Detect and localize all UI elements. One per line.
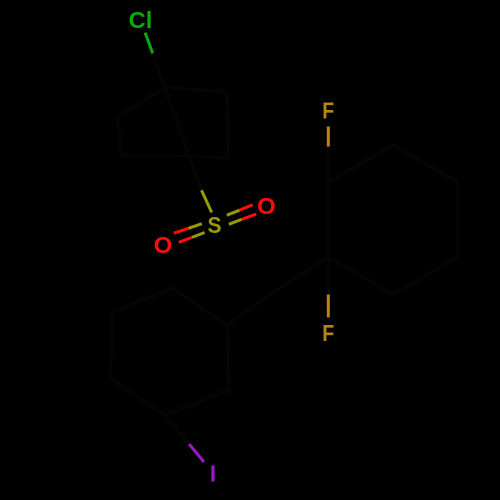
bond F2-C : carbon half (near-invisible): [327, 257, 330, 295]
bond Cl-C : carbon half (near-invisible): [153, 53, 165, 88]
bond S-C(aryl) : carbon half (near-invisible): [189, 156, 202, 191]
bond Cl-C : green half: [145, 33, 153, 54]
double bond S=O right (lower line) olive+red: [229, 219, 242, 224]
benzene ring 2 (difluorophenyl) near-invisible C-C edges: [328, 145, 457, 294]
double bond S=O left (lower line) olive+red: [192, 233, 205, 238]
wire: central CH2 links (near-invisible): [227, 257, 328, 325]
svg-text:Cl: Cl: [129, 7, 153, 33]
bond F1-C : carbon half (near-invisible): [327, 147, 330, 183]
benzene ring 3 (iodophenyl) near-invisible C-C edges: [110, 288, 229, 416]
bond I-C : purple half: [189, 444, 204, 462]
bond S-C(aryl) : sulfur half: [202, 190, 212, 212]
svg-text:I: I: [210, 460, 216, 486]
bond F2-C : gold half (bottom F): [327, 295, 330, 318]
double bond S=O left (upper line) olive+red: [189, 224, 202, 229]
bond I-C : carbon half (near-invisible): [165, 416, 189, 445]
svg-text:O: O: [154, 232, 173, 258]
svg-text:O: O: [257, 193, 276, 219]
svg-text:S: S: [208, 212, 222, 238]
svg-text:F: F: [322, 320, 334, 346]
bond F1-C : gold half (top F): [327, 126, 330, 146]
svg-text:F: F: [322, 98, 334, 124]
benzene ring 1 (chlorophenyl) near-invisible C-C edges: [117, 88, 228, 159]
double bond S=O right (upper line) olive+red: [227, 210, 240, 215]
